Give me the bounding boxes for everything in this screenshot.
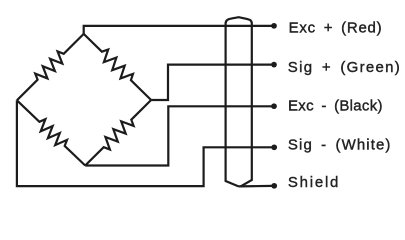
terminal dot Sig- [271,144,277,150]
wire Shield : cable sheath tip to Shield terminal [239,185,273,188]
resistor R4 (bridge bottom-right arm) [85,100,151,166]
wire Sig- : left bridge node to Sig- terminal [17,100,273,186]
resistor R2 (bridge top-right arm) [84,34,151,100]
cable sheath rounded top [226,17,252,23]
cable sheath right side [241,23,252,187]
wire Exc+ : top bridge node to Exc+ terminal [84,26,273,34]
wire Sig+ : right bridge node to Sig+ terminal [151,65,272,100]
terminal dot Exc- [271,103,277,109]
svg-text:Sig - (White): Sig - (White) [288,137,391,154]
terminal dot Sig+ [271,62,277,68]
terminal dot Exc+ [271,23,277,29]
wire Exc- : bottom bridge node to Exc- terminal [85,106,272,165]
terminal dot Shield [271,183,277,189]
svg-text:Sig + (Green): Sig + (Green) [288,59,400,76]
svg-text:Exc + (Red): Exc + (Red) [289,19,382,36]
cable sheath left side [226,23,239,187]
resistor R1 (bridge top-left arm) [17,34,84,100]
svg-text:Shield: Shield [288,174,339,191]
svg-text:Exc - (Black): Exc - (Black) [288,97,383,114]
resistor R3 (bridge bottom-left arm) [17,100,85,165]
